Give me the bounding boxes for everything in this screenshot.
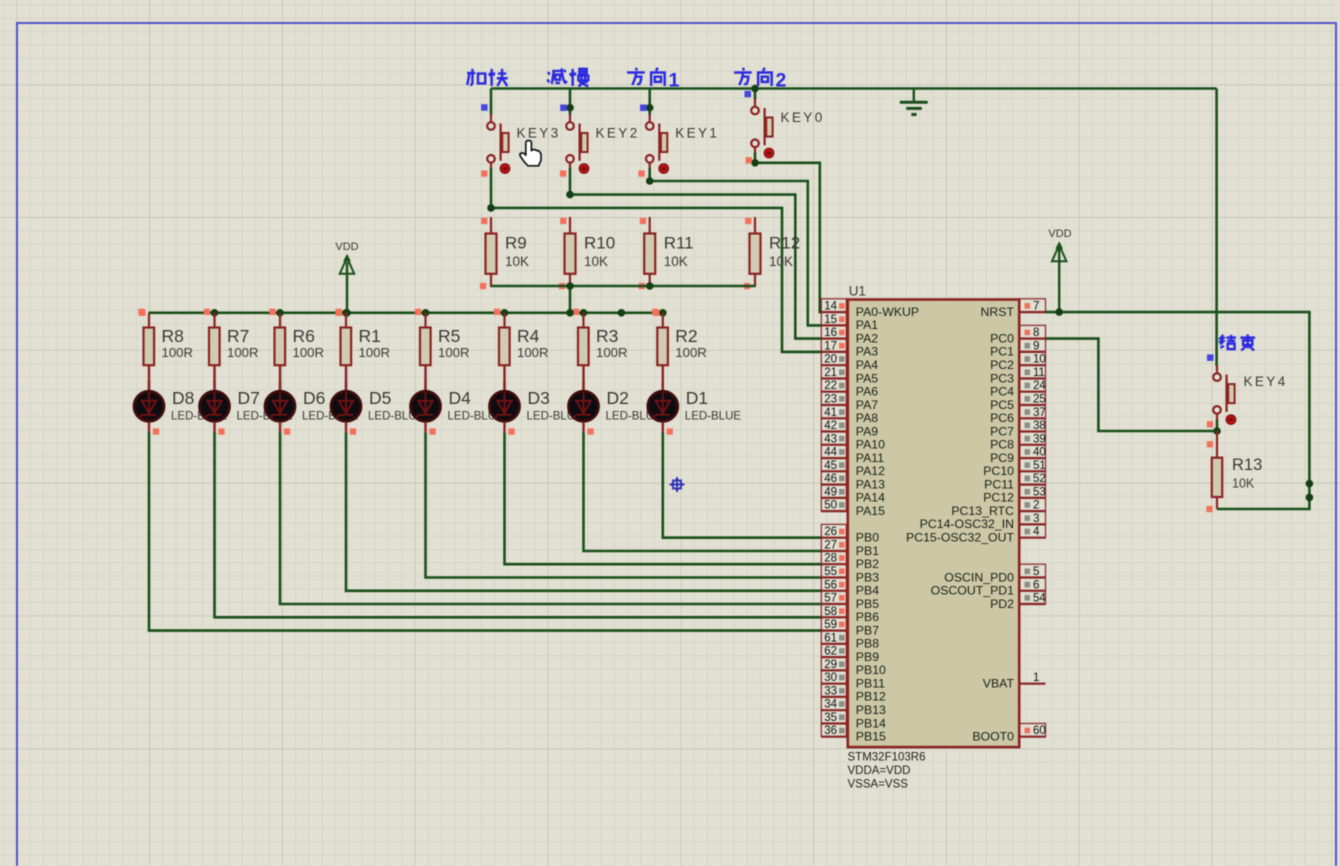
svg-text:33: 33 xyxy=(824,685,837,697)
svg-text:VDD: VDD xyxy=(335,241,358,253)
pushbutton KEY0 xyxy=(751,99,824,158)
junction KEY0 top bus xyxy=(751,85,759,93)
svg-text:BOOT0: BOOT0 xyxy=(972,730,1014,744)
svg-text:8: 8 xyxy=(1033,327,1039,339)
svg-text:KEY1: KEY1 xyxy=(675,125,719,140)
svg-text:59: 59 xyxy=(824,619,837,631)
marker squares R11 xyxy=(640,218,646,224)
marker square R2 xyxy=(652,309,658,315)
svg-text:PC11: PC11 xyxy=(984,477,1014,491)
svg-text:PA6: PA6 xyxy=(856,385,878,399)
svg-text:R4: R4 xyxy=(517,326,540,346)
wire: KEY2 to R and MCU pin xyxy=(569,168,572,195)
svg-text:R1: R1 xyxy=(359,326,381,346)
svg-text:LED-BLUE: LED-BLUE xyxy=(685,411,742,423)
junction KEY1 stub xyxy=(646,104,654,112)
resistor R7 100R xyxy=(209,313,259,365)
junction KEY4/R13/PC0 xyxy=(1213,427,1221,435)
wire: bus stub to KEY3 xyxy=(490,89,493,116)
svg-text:27: 27 xyxy=(824,540,837,552)
svg-text:D6: D6 xyxy=(303,388,325,408)
LED D6 LED-BLUE xyxy=(265,365,359,432)
svg-text:100R: 100R xyxy=(596,345,628,360)
svg-text:26: 26 xyxy=(824,526,837,538)
svg-text:10K: 10K xyxy=(769,254,793,269)
svg-text:STM32F103R6: STM32F103R6 xyxy=(848,752,926,764)
pin 49 left xyxy=(821,485,848,499)
svg-text:PA10: PA10 xyxy=(856,438,885,452)
svg-text:1: 1 xyxy=(669,70,680,92)
wire: PC0 to KEY4/R13 node xyxy=(1046,339,1218,431)
svg-text:PA15: PA15 xyxy=(856,504,885,518)
net label 方向1 (direction 1) xyxy=(627,68,679,92)
svg-text:37: 37 xyxy=(1033,407,1046,419)
svg-text:9: 9 xyxy=(1033,340,1039,352)
resistor R3 100R xyxy=(578,313,628,365)
svg-text:46: 46 xyxy=(824,473,837,485)
pin 40 right xyxy=(1019,445,1046,459)
junction dots right rail xyxy=(1306,480,1314,488)
pin 52 right xyxy=(1019,471,1046,485)
resistor R8 100R xyxy=(144,313,194,365)
wire: bus stub to KEY2 xyxy=(569,89,572,116)
svg-text:11: 11 xyxy=(1033,367,1045,379)
pin 24 right xyxy=(1019,379,1046,393)
pin 54 right xyxy=(1019,591,1046,605)
pin 53 right xyxy=(1019,485,1046,499)
svg-text:PC9: PC9 xyxy=(990,451,1014,465)
pin 28 left xyxy=(821,551,848,565)
mouse hand cursor xyxy=(520,141,541,166)
svg-text:PC12: PC12 xyxy=(983,491,1014,505)
svg-text:PC2: PC2 xyxy=(990,358,1014,372)
svg-text:100R: 100R xyxy=(162,345,194,360)
svg-text:44: 44 xyxy=(824,447,837,459)
svg-text:PB2: PB2 xyxy=(856,557,879,571)
marker square VDD rail left end xyxy=(139,310,145,316)
svg-text:KEY4: KEY4 xyxy=(1244,374,1288,389)
wire: D1 cathode to PB pin xyxy=(663,432,823,537)
svg-text:49: 49 xyxy=(824,486,837,498)
svg-text:PC13_RTC: PC13_RTC xyxy=(951,504,1014,518)
marker squares R9 xyxy=(481,218,487,224)
wire: top ground bus xyxy=(491,87,1217,90)
resistor R5 100R xyxy=(420,313,470,365)
svg-text:PC4: PC4 xyxy=(990,385,1014,399)
wire: D2 cathode to PB pin xyxy=(584,432,823,551)
junction R10 bottom xyxy=(566,282,574,290)
wire: D8 cathode to PB pin xyxy=(149,432,823,630)
pin 22 left xyxy=(821,379,848,393)
svg-text:30: 30 xyxy=(824,672,837,684)
marker squares R12 xyxy=(745,218,751,224)
svg-text:21: 21 xyxy=(824,367,837,379)
marker squares KEY4 xyxy=(1207,421,1213,427)
svg-text:R12: R12 xyxy=(769,234,800,253)
marker square KEY3 xyxy=(481,170,487,176)
svg-text:25: 25 xyxy=(1033,394,1046,406)
pin 62 left xyxy=(821,644,848,658)
resistor R2 100R xyxy=(657,313,707,365)
svg-text:KEY3: KEY3 xyxy=(517,125,561,140)
svg-text:52: 52 xyxy=(1033,473,1046,485)
pin 45 left xyxy=(821,458,848,472)
svg-text:PA9: PA9 xyxy=(856,424,878,438)
marker square R5 xyxy=(415,309,421,315)
pin 51 right xyxy=(1019,458,1046,472)
pin 29 left xyxy=(821,657,848,671)
marker square D8 xyxy=(153,428,159,434)
svg-text:PC3: PC3 xyxy=(990,371,1014,385)
svg-text:PA3: PA3 xyxy=(856,345,878,359)
pin 27 left xyxy=(821,538,848,552)
svg-text:PA7: PA7 xyxy=(856,398,878,412)
svg-text:PC5: PC5 xyxy=(990,398,1014,412)
junction R2 top xyxy=(659,309,667,317)
pin 5 right xyxy=(1019,564,1045,578)
svg-text:D3: D3 xyxy=(528,388,550,408)
U1 part labels xyxy=(848,752,926,791)
net label 加快 (speed up) xyxy=(467,69,508,86)
svg-text:42: 42 xyxy=(824,420,837,432)
LED D3 LED-BLUE xyxy=(490,365,584,432)
marker square D5 xyxy=(350,428,356,434)
marker square VDD rail at R1 xyxy=(336,310,342,316)
junction KEY2 bottom xyxy=(566,191,574,199)
wire: VDD rail (LED bus) xyxy=(149,311,663,314)
svg-text:55: 55 xyxy=(824,566,837,578)
svg-text:PB13: PB13 xyxy=(856,703,886,717)
svg-text:NRST: NRST xyxy=(981,305,1015,319)
svg-text:38: 38 xyxy=(1033,420,1046,432)
marker square D3 xyxy=(508,428,514,434)
marker square R4 xyxy=(494,309,500,315)
svg-text:10K: 10K xyxy=(505,254,529,269)
resistor R6 100R xyxy=(275,313,325,365)
pin 60 right xyxy=(1019,724,1046,738)
svg-text:22: 22 xyxy=(824,380,837,392)
svg-text:PC6: PC6 xyxy=(990,411,1014,425)
net label 减慢 (slow down) xyxy=(548,68,589,86)
wire: bus stub to KEY1 xyxy=(648,89,651,116)
pushbutton KEY3 xyxy=(487,114,560,173)
svg-text:17: 17 xyxy=(824,340,837,352)
junction pullup drop on VDD rail xyxy=(566,309,574,317)
svg-text:3: 3 xyxy=(1033,513,1039,525)
svg-text:20: 20 xyxy=(824,354,837,366)
resistor R1 100R xyxy=(341,313,391,365)
pin 38 right xyxy=(1019,418,1046,432)
svg-text:PA1: PA1 xyxy=(856,318,878,332)
svg-text:5: 5 xyxy=(1033,566,1039,578)
pin 21 left xyxy=(821,365,848,379)
resistor R12 10K xyxy=(750,217,801,287)
marker square VDD rail right end xyxy=(653,310,659,316)
pin 55 left xyxy=(821,564,848,578)
svg-text:PC14-OSC32_IN: PC14-OSC32_IN xyxy=(920,517,1014,531)
svg-text:PB0: PB0 xyxy=(856,531,879,545)
svg-text:1: 1 xyxy=(1033,672,1039,684)
svg-text:R5: R5 xyxy=(438,326,460,346)
pin 34 left xyxy=(821,697,848,711)
svg-text:40: 40 xyxy=(1033,447,1046,459)
svg-text:PA11: PA11 xyxy=(856,451,884,465)
svg-text:62: 62 xyxy=(824,646,837,658)
svg-text:R9: R9 xyxy=(505,234,527,253)
marker blue square 方向1 xyxy=(640,105,647,112)
svg-text:D7: D7 xyxy=(238,388,260,408)
op-amp U1 body STM32F103R6 xyxy=(848,284,1019,748)
svg-text:PB9: PB9 xyxy=(856,650,879,664)
pin 20 left xyxy=(821,352,848,366)
svg-text:PA2: PA2 xyxy=(856,331,878,345)
pin 42 left xyxy=(821,418,848,432)
svg-text:R8: R8 xyxy=(162,326,184,346)
pin 7 right xyxy=(1019,299,1045,313)
svg-text:R2: R2 xyxy=(675,326,697,346)
pin 9 right xyxy=(1019,339,1045,353)
svg-text:PB3: PB3 xyxy=(856,570,879,584)
pin 4 right xyxy=(1019,524,1045,538)
svg-text:PB10: PB10 xyxy=(856,663,886,677)
pin 33 left xyxy=(821,684,848,698)
svg-text:PB6: PB6 xyxy=(856,610,879,624)
svg-text:OSCIN_PD0: OSCIN_PD0 xyxy=(944,570,1014,584)
junction VDD rail xyxy=(343,309,351,317)
pin 46 left xyxy=(821,471,848,485)
svg-text:PB12: PB12 xyxy=(856,690,886,704)
wire: KEY0 to R and MCU pin xyxy=(754,153,757,163)
power symbol VDD (left) xyxy=(335,241,358,313)
svg-text:PC8: PC8 xyxy=(990,438,1014,452)
pin 15 left xyxy=(821,312,848,326)
svg-text:57: 57 xyxy=(824,593,837,605)
marker square KEY2 xyxy=(560,170,566,176)
svg-text:U1: U1 xyxy=(849,284,866,299)
marker square D6 xyxy=(284,428,290,434)
svg-text:50: 50 xyxy=(824,500,837,512)
svg-text:PB7: PB7 xyxy=(856,623,879,637)
resistor R13 10K xyxy=(1212,431,1262,509)
svg-text:10: 10 xyxy=(1033,354,1046,366)
LED D4 LED-BLUE xyxy=(411,365,505,432)
wire: D7 cathode to PB pin xyxy=(215,432,823,617)
marker square R13 bottom xyxy=(1206,506,1212,512)
svg-text:29: 29 xyxy=(824,659,837,671)
svg-text:PB4: PB4 xyxy=(856,584,879,598)
pin 26 left xyxy=(821,524,848,538)
pin 37 right xyxy=(1019,405,1046,419)
junction KEY0 bottom xyxy=(751,159,759,167)
svg-text:PB11: PB11 xyxy=(856,677,885,691)
svg-text:43: 43 xyxy=(824,433,837,445)
svg-text:VDD: VDD xyxy=(1048,228,1071,240)
marker square R8 xyxy=(138,309,144,315)
svg-text:R10: R10 xyxy=(584,234,615,253)
wire: bus stub to KEY0 xyxy=(754,89,757,100)
svg-text:6: 6 xyxy=(1033,579,1039,591)
net label 结束 (end) xyxy=(1220,334,1255,350)
svg-text:39: 39 xyxy=(1033,433,1046,445)
svg-text:PC10: PC10 xyxy=(983,464,1014,478)
junction R7 top xyxy=(211,309,219,317)
wire: KEY4 bottom to node xyxy=(1216,420,1219,432)
pin 61 left xyxy=(821,631,848,645)
marker square KEY0 xyxy=(746,157,752,163)
marker squares R10 xyxy=(560,218,566,224)
svg-text:100R: 100R xyxy=(359,345,391,360)
pin 58 left xyxy=(821,604,848,618)
pin 3 right xyxy=(1019,511,1045,525)
svg-text:PB1: PB1 xyxy=(856,544,879,558)
svg-text:PA4: PA4 xyxy=(856,358,878,372)
svg-text:100R: 100R xyxy=(438,345,470,360)
svg-text:KEY2: KEY2 xyxy=(596,125,640,140)
svg-text:PC1: PC1 xyxy=(990,345,1014,359)
svg-text:35: 35 xyxy=(824,712,837,724)
power symbol VDD (right) xyxy=(1048,228,1071,312)
pin 41 left xyxy=(821,405,848,419)
svg-text:PB15: PB15 xyxy=(856,730,886,744)
svg-text:PC7: PC7 xyxy=(990,424,1014,438)
pin 25 right xyxy=(1019,392,1046,406)
junction R5 top xyxy=(422,309,430,317)
svg-text:14: 14 xyxy=(824,301,837,313)
svg-text:58: 58 xyxy=(824,606,837,618)
wire: KEY3 to R and MCU pin xyxy=(490,168,493,208)
LED D2 LED-BLUE xyxy=(569,365,663,432)
svg-text:R13: R13 xyxy=(1232,456,1262,474)
resistor R4 100R xyxy=(499,313,549,365)
wire: KEY1 to R and MCU pin xyxy=(648,168,651,181)
svg-text:R7: R7 xyxy=(227,326,249,346)
pin 30 left xyxy=(821,670,848,684)
svg-text:41: 41 xyxy=(824,407,837,419)
svg-text:45: 45 xyxy=(824,460,837,472)
svg-text:PB8: PB8 xyxy=(856,637,879,651)
svg-text:23: 23 xyxy=(824,394,837,406)
junction R3 top xyxy=(580,309,588,317)
resistor R11 10K xyxy=(644,217,693,287)
svg-text:KEY0: KEY0 xyxy=(781,110,825,125)
svg-text:60: 60 xyxy=(1033,725,1046,737)
svg-text:100R: 100R xyxy=(517,345,549,360)
svg-text:VSSA=VSS: VSSA=VSS xyxy=(848,779,909,791)
wire: NRST to VDD rail right xyxy=(1046,312,1310,509)
marker square D4 xyxy=(429,428,435,434)
marker blue square 结束 xyxy=(1207,354,1214,361)
wire: D6 cathode to PB pin xyxy=(280,432,823,604)
svg-text:PA13: PA13 xyxy=(856,477,885,491)
svg-text:15: 15 xyxy=(824,314,837,326)
svg-text:D4: D4 xyxy=(449,388,472,408)
svg-text:PA5: PA5 xyxy=(856,371,878,385)
pin 2 right xyxy=(1019,498,1045,512)
svg-text:D8: D8 xyxy=(172,388,194,408)
LED D7 LED-BLUE xyxy=(200,365,294,432)
svg-text:24: 24 xyxy=(1033,380,1046,392)
marker square D2 xyxy=(587,428,593,434)
junction KEY2 stub xyxy=(566,104,574,112)
svg-text:R11: R11 xyxy=(664,234,694,253)
svg-text:PA0-WKUP: PA0-WKUP xyxy=(856,305,919,319)
marker blue square 方向2 xyxy=(745,91,752,98)
pin 14 left xyxy=(821,299,848,313)
svg-text:34: 34 xyxy=(824,699,837,711)
wire: D4 cathode to PB pin xyxy=(426,432,823,577)
pin 23 left xyxy=(821,392,848,406)
resistor R9 10K xyxy=(486,217,530,287)
pin 35 left xyxy=(821,710,848,724)
pin 44 left xyxy=(821,445,848,459)
pin 17 left xyxy=(821,339,848,353)
svg-text:100R: 100R xyxy=(293,345,325,360)
svg-text:4: 4 xyxy=(1033,526,1040,538)
ground symbol xyxy=(900,89,928,115)
net label 方向2 (direction 2) xyxy=(734,68,786,92)
wire: D3 cathode to PB pin xyxy=(505,432,823,564)
svg-text:100R: 100R xyxy=(675,345,707,360)
svg-text:2: 2 xyxy=(776,70,787,92)
svg-text:PA12: PA12 xyxy=(856,464,885,478)
pin 8 right xyxy=(1019,325,1045,339)
wire: D5 cathode to PB pin xyxy=(346,432,823,591)
marker blue square 减慢 xyxy=(560,105,567,112)
svg-text:54: 54 xyxy=(1033,593,1046,605)
junction on VDD rail xyxy=(618,309,626,317)
pushbutton KEY4 xyxy=(1213,365,1287,424)
svg-text:10K: 10K xyxy=(664,254,688,269)
svg-text:100R: 100R xyxy=(227,345,259,360)
svg-text:2: 2 xyxy=(1033,500,1039,512)
pin 59 left xyxy=(821,617,848,631)
pin 50 left xyxy=(821,498,848,512)
marker square D1 xyxy=(667,428,673,434)
pin 56 left xyxy=(821,578,848,592)
pin 1 right (VBAT) xyxy=(1019,672,1045,684)
svg-text:10K: 10K xyxy=(1232,477,1255,491)
svg-text:PA8: PA8 xyxy=(856,411,878,425)
wire: pullup bus drop to VDD rail xyxy=(569,286,572,313)
pin 57 left xyxy=(821,591,848,605)
junction R4 top xyxy=(501,309,509,317)
pushbutton KEY2 xyxy=(566,114,639,173)
marker square R3 xyxy=(573,309,579,315)
pin 6 right xyxy=(1019,578,1045,592)
svg-text:36: 36 xyxy=(824,725,837,737)
svg-text:PC15-OSC32_OUT: PC15-OSC32_OUT xyxy=(906,531,1014,545)
junction R11 bottom xyxy=(646,282,654,290)
svg-text:PB5: PB5 xyxy=(856,597,879,611)
svg-text:16: 16 xyxy=(824,327,837,339)
LED D1 LED-BLUE xyxy=(648,365,742,432)
marker square R1 xyxy=(335,309,341,315)
junction NRST/VDD xyxy=(1055,308,1063,316)
svg-text:R6: R6 xyxy=(293,326,315,346)
svg-text:VBAT: VBAT xyxy=(983,677,1015,691)
resistor R10 10K xyxy=(565,217,616,287)
svg-text:D1: D1 xyxy=(686,388,708,408)
marker square R6 xyxy=(269,309,275,315)
marker square D7 xyxy=(218,428,224,434)
marker square R7 xyxy=(204,309,210,315)
wire: R9-R12 bottom bus xyxy=(491,285,755,288)
pin 39 right xyxy=(1019,432,1046,446)
svg-text:28: 28 xyxy=(824,553,837,565)
pin 43 left xyxy=(821,432,848,446)
svg-text:PC0: PC0 xyxy=(990,331,1014,345)
svg-text:61: 61 xyxy=(824,632,837,644)
